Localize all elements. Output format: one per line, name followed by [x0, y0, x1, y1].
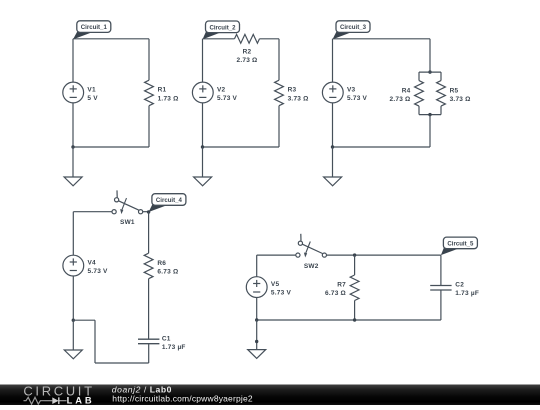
V2 value label [217, 86, 238, 102]
wire [72, 39, 74, 82]
wire [257, 319, 441, 321]
node ground attach dot [255, 340, 258, 343]
svg-text:6.73 Ω: 6.73 Ω [157, 268, 178, 275]
node A junction [147, 210, 150, 213]
wire [73, 38, 149, 40]
wire [202, 147, 204, 177]
svg-text:V3: V3 [347, 86, 356, 93]
voltage source V3 [322, 82, 343, 103]
V5 value label [271, 281, 292, 297]
ground [324, 177, 342, 186]
wire [429, 39, 431, 72]
R6 value label [157, 260, 178, 276]
node Circuit_5 callout [441, 237, 478, 255]
R7 value label [325, 281, 346, 297]
svg-text:5 V: 5 V [87, 95, 98, 102]
capacitor C2 [430, 286, 451, 291]
node junction c3 gnd [331, 145, 334, 148]
logo diode symbol [52, 397, 66, 404]
voltage source V5 [246, 277, 267, 298]
node junction c2 [201, 145, 204, 148]
node Circuit_4 callout [149, 194, 186, 212]
svg-text:SW2: SW2 [304, 263, 319, 270]
svg-text:3.73 Ω: 3.73 Ω [450, 96, 471, 103]
logo resistor zigzag [24, 397, 53, 404]
wire [94, 320, 96, 363]
R1 value label [158, 87, 179, 103]
wire [419, 114, 441, 116]
svg-text:R4: R4 [402, 87, 411, 94]
svg-text:Circuit_2: Circuit_2 [209, 24, 236, 31]
wire [354, 301, 356, 321]
wire [440, 255, 442, 285]
svg-text:3.73 Ω: 3.73 Ω [288, 95, 309, 102]
svg-text:5.73 V: 5.73 V [271, 290, 292, 297]
wire [95, 362, 149, 364]
resistor R7 [350, 275, 359, 301]
voltage source V1 [63, 82, 84, 103]
wire [332, 103, 334, 147]
wire [419, 71, 441, 73]
ground [64, 177, 82, 186]
wire [278, 106, 280, 147]
V1 value label [87, 86, 98, 102]
resistor R2 [235, 34, 260, 43]
svg-text:2.73 Ω: 2.73 Ω [390, 96, 411, 103]
svg-text:5.73 V: 5.73 V [347, 95, 368, 102]
ground [248, 350, 266, 359]
R3 value label [288, 87, 309, 103]
svg-text:Circuit_3: Circuit_3 [340, 24, 367, 31]
node junction R7 bottom [353, 318, 356, 321]
wire [333, 146, 431, 148]
resistor R3 [275, 80, 284, 106]
wire [203, 146, 280, 148]
node junction R7 top [353, 253, 356, 256]
svg-text:1.73 µF: 1.73 µF [455, 290, 479, 297]
svg-text:http://circuitlab.com/cpww8yae: http://circuitlab.com/cpww8yaerpje2 [112, 393, 253, 403]
svg-text:Circuit_4: Circuit_4 [156, 197, 183, 204]
svg-text:SW1: SW1 [120, 219, 135, 226]
resistor R5 [437, 81, 446, 107]
node junction c4 [72, 319, 75, 322]
svg-text:1.73 Ω: 1.73 Ω [158, 95, 179, 102]
svg-text:R2: R2 [243, 48, 252, 55]
wire [148, 106, 150, 147]
svg-text:R7: R7 [337, 281, 346, 288]
switch SW2 [296, 234, 327, 258]
node Circuit_1 callout [73, 21, 111, 40]
wire [440, 72, 442, 81]
wire [202, 103, 204, 147]
wire [72, 320, 74, 350]
wire [72, 147, 74, 177]
wire [148, 344, 150, 363]
svg-text:2.73 Ω: 2.73 Ω [237, 57, 258, 64]
CircuitLab logo CIRCUIT wordmark [23, 383, 94, 398]
node Circuit_3 callout [333, 21, 371, 40]
svg-text:V1: V1 [87, 86, 96, 93]
wire [256, 255, 258, 277]
node Circuit_2 callout [203, 21, 240, 39]
wire [418, 72, 420, 81]
ground [194, 177, 212, 186]
wire [148, 212, 150, 253]
svg-text:R5: R5 [450, 87, 459, 94]
svg-text:V5: V5 [271, 281, 280, 288]
voltage source V4 [63, 255, 84, 276]
svg-text:1.73 µF: 1.73 µF [162, 344, 186, 351]
wire [72, 276, 74, 320]
wire [260, 38, 280, 40]
V4 value label [88, 259, 109, 275]
svg-text:V4: V4 [88, 259, 97, 266]
wire [418, 106, 420, 115]
switch SW1 [112, 190, 143, 214]
wire [256, 298, 258, 321]
resistor R6 [144, 253, 153, 279]
wire [143, 211, 149, 213]
svg-text:6.73 Ω: 6.73 Ω [325, 290, 346, 297]
svg-text:C2: C2 [455, 282, 464, 289]
node junction c3 top [428, 70, 431, 73]
C2 value label [455, 282, 479, 298]
wire [332, 147, 334, 177]
wire [203, 38, 235, 40]
wire [354, 255, 356, 275]
node junction V5 bottom [255, 318, 258, 321]
wire [256, 320, 258, 350]
V3 value label [347, 86, 368, 102]
node junction c1 [71, 145, 74, 148]
wire [333, 38, 431, 40]
resistor R1 [145, 80, 154, 106]
svg-text:Circuit_1: Circuit_1 [81, 24, 108, 31]
svg-text:V2: V2 [217, 86, 226, 93]
wire [332, 39, 334, 82]
wire [148, 39, 150, 80]
svg-text:R6: R6 [157, 260, 166, 267]
wire [202, 39, 204, 82]
svg-text:R3: R3 [288, 87, 297, 94]
R5 value label [450, 87, 471, 103]
wire [72, 103, 74, 147]
wire [73, 319, 95, 321]
wire [73, 146, 149, 148]
svg-text:R1: R1 [158, 87, 167, 94]
wire [429, 115, 431, 147]
wire [440, 106, 442, 115]
wire [72, 212, 74, 256]
R2 value label [237, 48, 258, 63]
voltage source V2 [192, 82, 213, 103]
svg-text:Circuit_5: Circuit_5 [447, 241, 474, 248]
wire [73, 211, 112, 213]
resistor R4 [415, 81, 424, 107]
svg-text:C1: C1 [162, 335, 171, 342]
wire [278, 39, 280, 80]
svg-text:5.73 V: 5.73 V [217, 95, 238, 102]
capacitor C1 [138, 339, 159, 344]
svg-text:LAB: LAB [67, 395, 95, 405]
wire [148, 279, 150, 340]
wire [440, 290, 442, 320]
C1 value label [162, 335, 186, 351]
ground [64, 350, 82, 359]
wire [257, 254, 296, 256]
svg-text:5.73 V: 5.73 V [88, 268, 109, 275]
R4 value label [390, 87, 411, 103]
node junction c3 bottom [428, 113, 431, 116]
wire [327, 254, 441, 256]
footer bar [0, 385, 540, 406]
